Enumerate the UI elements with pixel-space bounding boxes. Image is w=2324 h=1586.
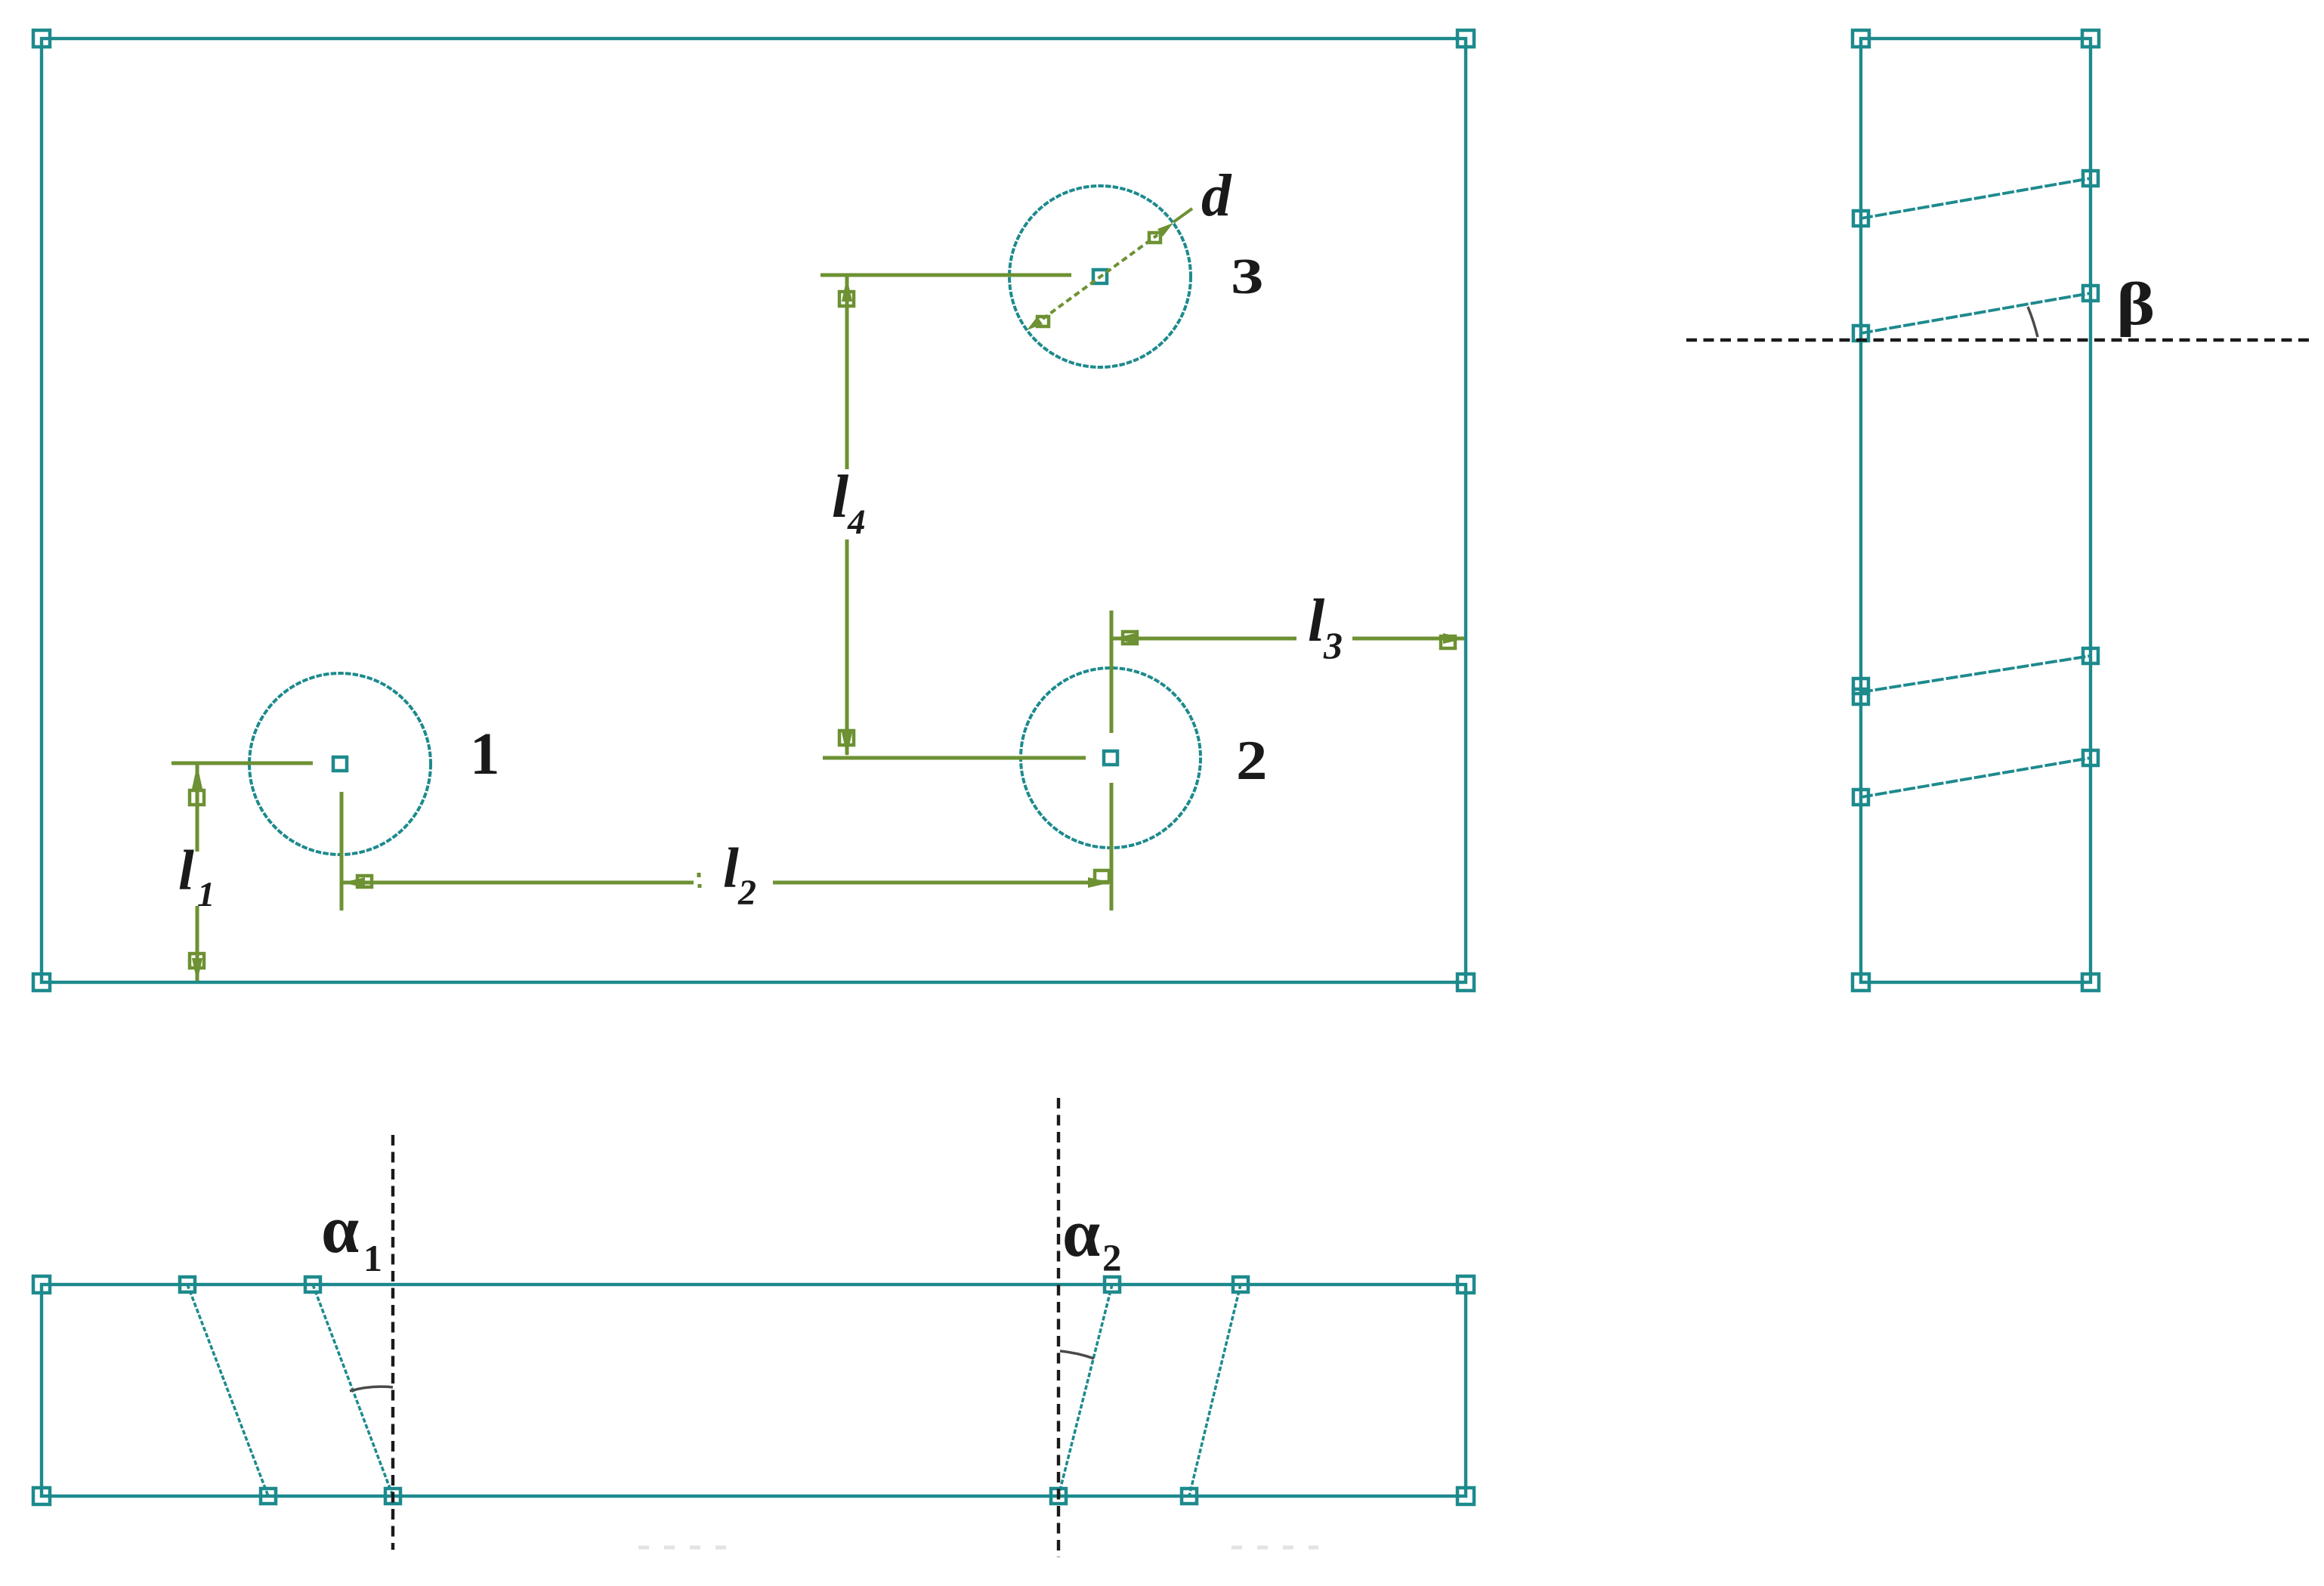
svg-text:2: 2 — [1102, 1238, 1122, 1280]
svg-text:α: α — [321, 1192, 359, 1267]
svg-text:1: 1 — [470, 722, 500, 787]
svg-text:l: l — [723, 837, 739, 900]
svg-text:3: 3 — [1323, 624, 1343, 666]
svg-text:β: β — [2116, 271, 2155, 338]
svg-text:1: 1 — [363, 1237, 382, 1279]
svg-text:l: l — [178, 839, 194, 902]
svg-text:d: d — [1201, 163, 1232, 229]
svg-text:3: 3 — [1231, 249, 1264, 305]
svg-text:2: 2 — [1236, 729, 1267, 791]
svg-text:l: l — [1308, 588, 1325, 654]
svg-text:4: 4 — [847, 502, 866, 542]
svg-text:2: 2 — [737, 873, 756, 913]
svg-text:α: α — [1062, 1196, 1100, 1271]
svg-text:1: 1 — [197, 875, 215, 914]
svg-text:l: l — [832, 464, 849, 530]
